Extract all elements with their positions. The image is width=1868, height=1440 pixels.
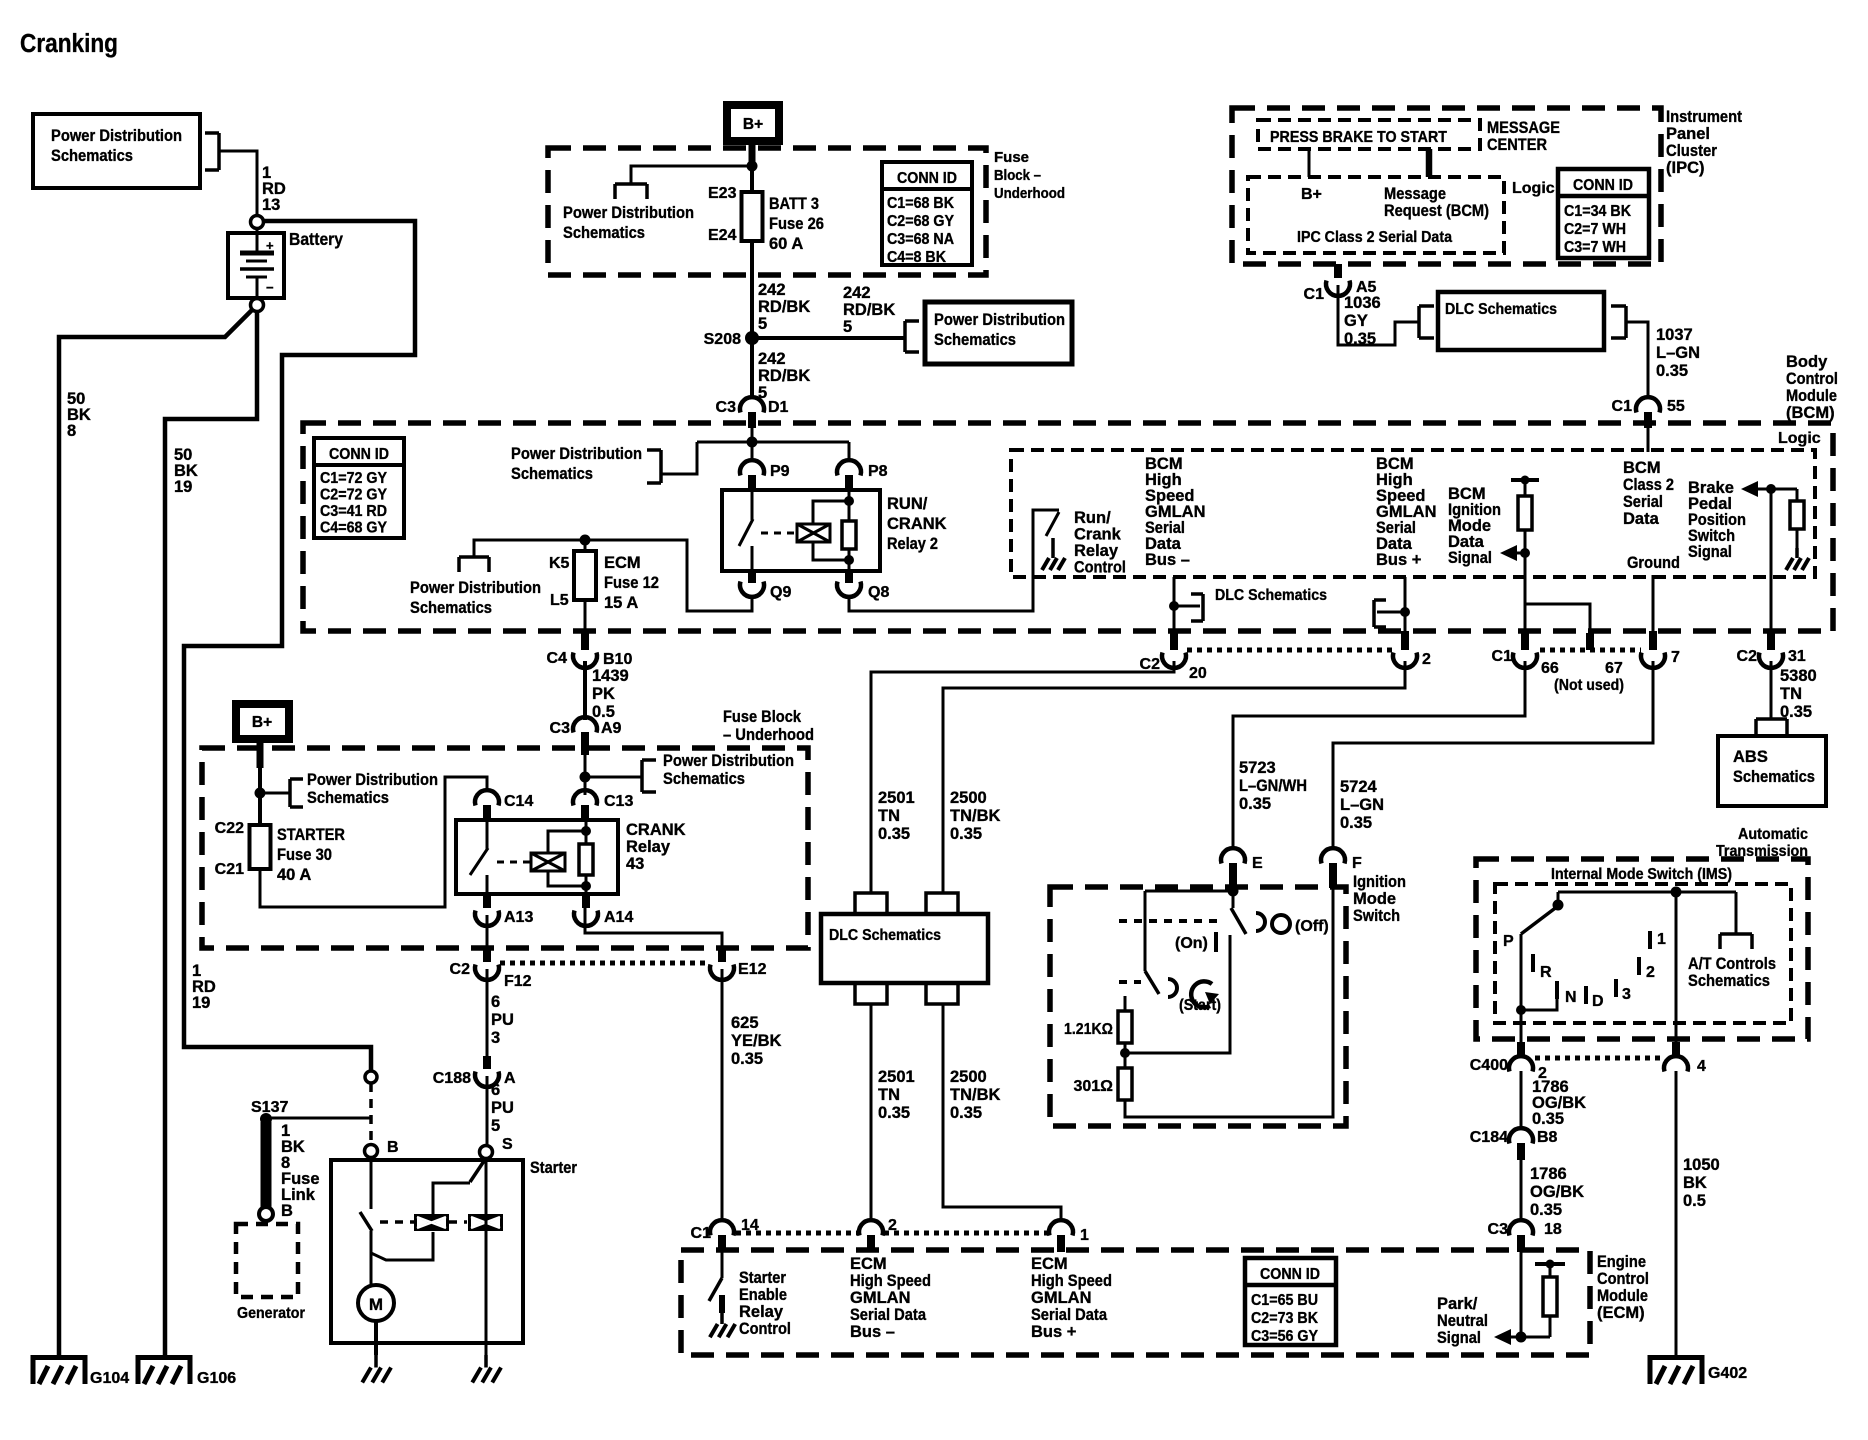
fuse block / BCM outer dashed box <box>303 423 1833 631</box>
svg-text:C2=72 GY: C2=72 GY <box>320 487 387 504</box>
svg-text:Cranking: Cranking <box>20 30 118 58</box>
wire S208 down to connector C3-D1 <box>750 344 754 399</box>
svg-text:RD/BK: RD/BK <box>758 298 810 316</box>
park/neutral signal arrow <box>1494 1329 1550 1345</box>
svg-text:Neutral: Neutral <box>1437 1312 1488 1330</box>
starter motor box <box>331 1160 523 1343</box>
wire dashed section to starter B <box>369 1083 373 1145</box>
svg-text:S208: S208 <box>704 331 741 348</box>
svg-text:Fuse 12: Fuse 12 <box>604 574 659 592</box>
wire press brake B+ <box>1308 149 1311 177</box>
svg-text:B+: B+ <box>1301 186 1322 203</box>
crank relay coil <box>531 831 586 886</box>
wire DLC to BCM C1-55 <box>1626 322 1648 398</box>
svg-text:E: E <box>1252 855 1263 872</box>
svg-text:Schematics: Schematics <box>1688 972 1770 990</box>
svg-text:1786: 1786 <box>1530 1165 1567 1183</box>
BCM high speed GMLAN bus plus label <box>1376 455 1437 569</box>
svg-text:6: 6 <box>491 993 500 1011</box>
ignition switch start rotation arrow <box>1191 981 1219 1007</box>
starter contact jog <box>371 1232 433 1287</box>
relay 2 mechanical link <box>761 532 797 535</box>
BCM ignition mode pullup bar <box>1511 476 1539 485</box>
crank relay resistor <box>579 820 593 894</box>
svg-text:Fuse 26: Fuse 26 <box>769 215 824 233</box>
wire B10 to A9 <box>583 661 587 720</box>
power feed B+ (top) <box>727 105 779 141</box>
DLC schematics box (middle) <box>821 893 988 1004</box>
svg-text:−: − <box>266 280 274 295</box>
fuse label BATT 3 <box>769 195 824 253</box>
wire label 1036 GY 0.35 <box>1344 294 1381 348</box>
relay CRANK Relay 43 box <box>456 820 618 894</box>
svg-text:Bus +: Bus + <box>1376 551 1421 569</box>
svg-text:Logic: Logic <box>1512 180 1555 197</box>
svg-text:F12: F12 <box>504 973 532 990</box>
svg-text:2501: 2501 <box>878 1068 915 1086</box>
starter motor M <box>358 1285 394 1321</box>
svg-text:D1: D1 <box>768 399 789 416</box>
node junction above relay <box>747 437 758 448</box>
svg-text:C4=68 GY: C4=68 GY <box>320 520 387 537</box>
svg-text:OG/BK: OG/BK <box>1530 1183 1584 1201</box>
svg-text:Q8: Q8 <box>868 584 889 601</box>
fuse label ECM Fuse 12 <box>604 554 659 612</box>
ground G104 <box>31 1355 129 1387</box>
wire label 1439 PK 0.5 <box>592 667 629 721</box>
svg-text:Fuse: Fuse <box>994 149 1029 166</box>
connector row dotted line (F12 to E12) <box>500 961 710 966</box>
ignition switch off contact <box>1256 913 1265 931</box>
svg-text:Schematics: Schematics <box>511 465 593 483</box>
svg-text:Body: Body <box>1786 353 1828 371</box>
wire ECM fuse to C4-B10 <box>584 600 587 638</box>
wire branch to power distribution reference (relay) <box>647 442 697 483</box>
starter label <box>530 1159 577 1177</box>
wire DLC to ECM bus plus pin 1 <box>943 1004 1061 1222</box>
svg-text:Automatic: Automatic <box>1738 826 1808 843</box>
automatic transmission label <box>1716 826 1808 860</box>
wire S137 tap <box>266 1117 371 1120</box>
svg-text:C3: C3 <box>1488 1221 1509 1238</box>
svg-text:High Speed: High Speed <box>1031 1272 1112 1290</box>
wire label 2500 TN/BK 0.35 (upper) <box>950 789 1000 843</box>
svg-text:19: 19 <box>192 994 210 1012</box>
power distribution schematics reference box (right of S208) <box>925 302 1072 364</box>
svg-text:5: 5 <box>843 318 852 336</box>
svg-text:242: 242 <box>843 284 871 302</box>
svg-text:Power Distribution: Power Distribution <box>307 771 438 789</box>
connector C3 pin D1 <box>716 397 789 428</box>
connector RUN/CRANK relay pin Q9 <box>740 571 791 601</box>
svg-text:A: A <box>504 1070 516 1087</box>
svg-text:2: 2 <box>1422 651 1431 668</box>
svg-text:Relay 2: Relay 2 <box>887 535 938 553</box>
reference bracket on box right <box>205 133 219 170</box>
svg-text:2500: 2500 <box>950 789 987 807</box>
wire C1-66 to IMS pin E <box>1233 661 1525 850</box>
relay RUN/CRANK label <box>887 495 947 553</box>
BCM brake pedal resistor to ground <box>1786 489 1809 570</box>
reference bracket below ECM fuse feed <box>459 557 489 572</box>
connector BCM pin 2 <box>1393 631 1431 668</box>
svg-text:Schematics: Schematics <box>663 770 745 788</box>
connector C188 pin A <box>433 1056 516 1087</box>
wire S208 to power distribution reference <box>752 336 905 340</box>
svg-text:0.35: 0.35 <box>1656 362 1688 380</box>
node junction above starter fuse <box>255 788 266 799</box>
wire C1-55 into BCM <box>1647 425 1650 452</box>
svg-text:C4=8 BK: C4=8 BK <box>887 249 946 266</box>
svg-text:Request (BCM): Request (BCM) <box>1384 202 1489 220</box>
wire A5 to DLC schematics <box>1338 285 1419 345</box>
wire between resistors <box>1124 1043 1127 1068</box>
wire to P8 <box>848 442 851 462</box>
wire stub below B+ <box>749 143 756 166</box>
fuse link S137 to generator <box>261 1122 272 1207</box>
engine control module label <box>1597 1253 1649 1322</box>
svg-text:Q9: Q9 <box>770 584 791 601</box>
svg-text:5724: 5724 <box>1340 778 1378 796</box>
svg-text:Power Distribution: Power Distribution <box>663 752 794 770</box>
message center inner dashed box <box>1258 120 1480 149</box>
starter solenoid pull-in winding <box>414 1214 449 1231</box>
wire to P9 <box>751 442 754 462</box>
svg-text:18: 18 <box>1544 1221 1562 1238</box>
svg-text:Starter: Starter <box>739 1269 786 1287</box>
wire label 5380 TN 0.35 <box>1780 667 1817 721</box>
svg-text:P: P <box>1503 933 1514 950</box>
BCM ignition mode data signal label <box>1448 485 1501 567</box>
svg-text:0.35: 0.35 <box>731 1050 763 1068</box>
svg-text:Crank: Crank <box>1074 526 1122 544</box>
IMS wire top <box>1558 891 1736 894</box>
reference bracket (crank relay C13) <box>585 760 656 792</box>
svg-text:0.35: 0.35 <box>878 1104 910 1122</box>
svg-text:C22: C22 <box>215 820 244 837</box>
connector ECM pin 2 <box>859 1217 897 1252</box>
reference bracket at power distribution box <box>905 321 919 352</box>
svg-text:DLC Schematics: DLC Schematics <box>1215 587 1327 604</box>
wire B+ to starter fuse <box>258 740 262 825</box>
svg-text:(IPC): (IPC) <box>1666 159 1705 177</box>
ignition switch mechanical link (off-on) <box>1119 919 1222 923</box>
svg-text:0.5: 0.5 <box>1683 1192 1706 1210</box>
DLC schematics label (BCM) <box>1215 587 1327 604</box>
battery B1 <box>228 228 284 298</box>
svg-text:6: 6 <box>491 1081 500 1099</box>
svg-text:Schematics: Schematics <box>1733 768 1815 786</box>
svg-text:C1=72 GY: C1=72 GY <box>320 470 387 487</box>
svg-text:C1=34 BK: C1=34 BK <box>1564 203 1631 220</box>
node junction above ECM fuse <box>580 535 591 546</box>
svg-text:1: 1 <box>1657 931 1666 948</box>
BCM high speed GMLAN bus minus label <box>1145 455 1206 569</box>
battery label <box>289 229 343 249</box>
wire label 5724 L-GN 0.35 <box>1340 778 1384 832</box>
wire to starter B terminal (solid part) <box>370 1047 373 1071</box>
svg-text:(BCM): (BCM) <box>1786 404 1835 422</box>
node IMS pin4 junction <box>1671 887 1682 898</box>
svg-text:0.5: 0.5 <box>592 703 615 721</box>
ground symbol (starter enable) <box>710 1295 735 1337</box>
connector fuse block C2 pin E12 <box>710 950 767 980</box>
wire A13 to C2-F12 <box>486 915 489 950</box>
svg-text:A13: A13 <box>504 909 533 926</box>
svg-text:Switch: Switch <box>1353 907 1400 925</box>
power distribution schematics label (crank relay) <box>663 752 794 788</box>
svg-text:Bus –: Bus – <box>850 1323 895 1341</box>
svg-text:1050: 1050 <box>1683 1156 1720 1174</box>
ground G402 <box>1648 1355 1747 1384</box>
svg-text:Schematics: Schematics <box>51 147 133 165</box>
crank relay label <box>626 821 686 873</box>
svg-text:Schematics: Schematics <box>563 224 645 242</box>
connector C400 pin 2 <box>1470 1042 1547 1082</box>
connector C4 pin B10 <box>547 631 633 668</box>
svg-text:GMLAN: GMLAN <box>1031 1289 1092 1307</box>
svg-text:C3=7 WH: C3=7 WH <box>1564 239 1626 256</box>
node relay 2 coil bottom <box>844 555 854 565</box>
svg-text:1037: 1037 <box>1656 326 1693 344</box>
svg-text:Ignition: Ignition <box>1353 873 1406 891</box>
IMS position P label <box>1503 933 1514 950</box>
wire B+ to fuse BATT 3 <box>750 142 754 192</box>
connector row dotted line (C400) <box>1535 1056 1664 1061</box>
svg-text:C4: C4 <box>547 650 568 667</box>
power distribution schematics label (fuse block top) <box>563 204 694 242</box>
wire brake pedal signal to C2-31 <box>1770 489 1773 640</box>
svg-text:13: 13 <box>262 196 280 214</box>
wire A9 junction into box <box>584 755 587 795</box>
svg-text:Schematics: Schematics <box>410 599 492 617</box>
svg-text:Panel: Panel <box>1666 125 1710 143</box>
power feed B+ (starter) <box>236 704 289 739</box>
IPC class 2 serial data label <box>1297 229 1452 246</box>
wire label 242 RD/BK 5 (branch) <box>843 284 895 336</box>
svg-text:Class 2: Class 2 <box>1623 476 1674 494</box>
svg-text:60 A: 60 A <box>769 235 803 253</box>
svg-text:Signal: Signal <box>1437 1329 1481 1347</box>
IMS N contact <box>1521 981 1577 1010</box>
connector ECM pin 1 <box>1049 1220 1089 1252</box>
connector row dotted line (66 to 7) <box>1540 648 1641 653</box>
terminal label C21 <box>215 861 244 878</box>
connector ignition switch pin F <box>1321 848 1362 888</box>
svg-text:TN/BK: TN/BK <box>950 807 1000 825</box>
connector C400 pin 4 <box>1664 1042 1706 1075</box>
svg-text:19: 19 <box>174 478 192 496</box>
resistor 301 <box>1073 1068 1132 1100</box>
wire label 5723 L-GN/WH 0.35 <box>1239 759 1307 813</box>
svg-text:L5: L5 <box>550 592 569 609</box>
svg-text:M: M <box>369 1295 383 1314</box>
connector fuse block C2 pin F12 <box>450 950 532 990</box>
wire IMS to A/T controls reference <box>1720 892 1752 949</box>
IMS P blade <box>1521 892 1564 934</box>
connector crank relay pin A14 <box>574 894 633 926</box>
instrument panel cluster dashed box <box>1232 108 1661 264</box>
wire BCM bus minus to C2-20 <box>1173 577 1176 640</box>
node starter S terminal <box>480 1146 493 1159</box>
svg-text:Serial Data: Serial Data <box>1031 1306 1108 1324</box>
svg-text:MESSAGE: MESSAGE <box>1487 119 1560 137</box>
connector BCM C2 pin 31 <box>1737 631 1806 668</box>
wire label 50 BK 19 <box>174 446 198 496</box>
svg-text:5: 5 <box>491 1117 500 1135</box>
svg-text:2501: 2501 <box>878 789 915 807</box>
wire label 242 RD/BK 5 (above S208) <box>758 281 810 333</box>
svg-text:TN: TN <box>878 1086 900 1104</box>
svg-text:7: 7 <box>1671 649 1680 666</box>
node relay 2 coil top <box>844 496 854 506</box>
starter solenoid mechanical link <box>380 1220 467 1224</box>
svg-text:PK: PK <box>592 685 615 703</box>
svg-text:ECM: ECM <box>1031 1255 1068 1273</box>
wire battery positive to fuse blocks (loop right) <box>184 221 415 1071</box>
generator label <box>237 1305 305 1322</box>
brake pedal signal arrow <box>1741 481 1797 497</box>
CONN ID table (fuse block underhood top) <box>882 162 972 266</box>
svg-text:S137: S137 <box>251 1099 288 1116</box>
wire label 1050 BK 0.5 <box>1683 1156 1720 1210</box>
svg-text:GY: GY <box>1344 312 1368 330</box>
node battery positive terminal <box>251 216 264 229</box>
BCM ground label <box>1627 554 1680 572</box>
wire stub below starter B+ <box>257 741 264 768</box>
svg-text:L–GN: L–GN <box>1340 796 1384 814</box>
svg-text:CRANK: CRANK <box>626 821 686 839</box>
svg-text:0.35: 0.35 <box>878 825 910 843</box>
svg-text:5380: 5380 <box>1780 667 1817 685</box>
wire junction to ECM fuse <box>584 540 587 551</box>
wire message request <box>1426 149 1433 177</box>
svg-text:Control: Control <box>1074 559 1126 577</box>
CONN ID table (ECM) <box>1245 1258 1336 1345</box>
svg-text:PU: PU <box>491 1011 514 1029</box>
CONN ID table (relay fuse block) <box>314 438 404 538</box>
svg-text:C184: C184 <box>1470 1129 1508 1146</box>
svg-text:C1: C1 <box>1612 398 1633 415</box>
svg-text:(On): (On) <box>1175 935 1208 952</box>
A/T controls schematics label <box>1688 955 1776 990</box>
svg-text:ABS: ABS <box>1733 748 1768 766</box>
fuse block underhood label (top) <box>994 149 1065 202</box>
connector row dotted line (14 to 2 to 1) <box>736 1231 1049 1236</box>
power distribution schematics label (ECM fuse) <box>410 579 541 617</box>
svg-text:Park/: Park/ <box>1437 1295 1478 1313</box>
svg-text:DLC Schematics: DLC Schematics <box>829 927 941 944</box>
svg-text:K5: K5 <box>549 555 570 572</box>
svg-text:G106: G106 <box>197 1370 236 1387</box>
svg-text:43: 43 <box>626 855 644 873</box>
node junction above BATT 3 fuse <box>747 161 758 172</box>
starter switch from B <box>360 1158 372 1253</box>
connector C184 pin B8 <box>1470 1128 1558 1160</box>
svg-text:Block –: Block – <box>994 167 1041 184</box>
svg-text:+: + <box>266 238 274 253</box>
svg-text:C3=41 RD: C3=41 RD <box>320 503 387 520</box>
svg-text:4: 4 <box>1697 1058 1706 1075</box>
connector crank relay pin C13 <box>573 790 633 820</box>
svg-text:E23: E23 <box>708 185 737 202</box>
node crank relay coil top <box>581 826 591 836</box>
svg-text:C2: C2 <box>1140 656 1161 673</box>
wire motor to ground <box>374 1321 378 1355</box>
wire battery negative to G106 <box>165 311 257 1355</box>
svg-text:STARTER: STARTER <box>277 826 345 844</box>
svg-text:55: 55 <box>1667 398 1685 415</box>
power distribution schematics reference box (top left) <box>33 114 200 188</box>
svg-text:IPC Class 2 Serial Data: IPC Class 2 Serial Data <box>1297 229 1452 246</box>
crank relay mechanical link <box>497 861 531 864</box>
relay 2 switch <box>739 490 753 571</box>
svg-text:P9: P9 <box>770 463 790 480</box>
node junction park/neutral <box>1516 1332 1527 1343</box>
svg-text:G402: G402 <box>1708 1365 1747 1382</box>
svg-text:TN: TN <box>878 807 900 825</box>
fuse label STARTER Fuse 30 <box>277 826 345 884</box>
svg-text:CONN ID: CONN ID <box>1260 1266 1320 1283</box>
svg-text:TN/BK: TN/BK <box>950 1086 1000 1104</box>
svg-text:0.35: 0.35 <box>1532 1110 1564 1128</box>
wire to power distribution reference (E23 feed) <box>615 166 752 199</box>
svg-text:B: B <box>281 1202 293 1220</box>
svg-text:PRESS BRAKE TO START: PRESS BRAKE TO START <box>1270 129 1447 146</box>
svg-text:BCM: BCM <box>1623 459 1661 477</box>
svg-text:B: B <box>387 1139 399 1156</box>
terminal B label <box>387 1139 399 1156</box>
svg-text:C400: C400 <box>1470 1057 1508 1074</box>
ignition mode switch label <box>1353 873 1406 925</box>
fuse block underhood dashed box (lower) <box>202 748 808 948</box>
wire C188 to starter S <box>486 1076 489 1146</box>
svg-text:(Off): (Off) <box>1295 918 1329 935</box>
svg-text:Bus +: Bus + <box>1031 1323 1076 1341</box>
svg-text:Control: Control <box>1786 370 1838 388</box>
connector ignition switch pin E <box>1221 848 1263 888</box>
node junction ignition mode signal <box>1520 548 1530 558</box>
svg-text:B+: B+ <box>743 116 763 133</box>
node junction bus minus DLC tap <box>1169 601 1179 611</box>
connector crank relay pin A13 <box>475 894 533 926</box>
svg-text:Power Distribution: Power Distribution <box>511 445 642 463</box>
DLC reference bracket (left) <box>1419 306 1434 338</box>
svg-text:Serial: Serial <box>1623 493 1663 511</box>
press brake to start text <box>1270 129 1447 146</box>
svg-text:5: 5 <box>758 315 767 333</box>
wire solenoid to ground <box>485 1343 488 1355</box>
BCM ignition mode signal arrow <box>1500 545 1525 561</box>
connector C3 pin A9 <box>550 717 622 755</box>
svg-text:Control: Control <box>1597 1270 1649 1288</box>
wire C184 to C3-18 <box>1520 1160 1523 1222</box>
wire BCM ground to pin 7 <box>1652 575 1655 640</box>
wire label 1 RD 13 <box>262 164 286 214</box>
IPC B+ label <box>1301 186 1322 203</box>
terminal label K5 <box>549 555 570 572</box>
svg-text:E24: E24 <box>708 227 737 244</box>
wire BCM bus plus to pin 2 <box>1404 577 1407 640</box>
wire label 625 YE/BK 0.35 <box>731 1014 782 1068</box>
svg-text:Signal: Signal <box>1688 543 1732 561</box>
svg-text:20: 20 <box>1189 665 1207 682</box>
wire C2-31 to ABS schematics <box>1756 661 1787 735</box>
svg-text:C3: C3 <box>550 720 571 737</box>
svg-text:Power Distribution: Power Distribution <box>934 311 1065 329</box>
terminal label E24 <box>708 227 737 244</box>
svg-text:Relay: Relay <box>626 838 671 856</box>
